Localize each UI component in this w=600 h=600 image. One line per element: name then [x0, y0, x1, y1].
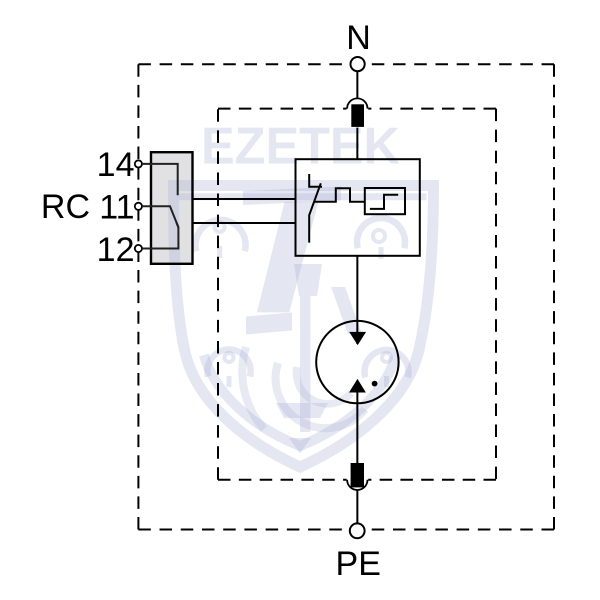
svg-text:RC: RC — [41, 188, 90, 226]
svg-text:N: N — [346, 19, 371, 57]
svg-text:PE: PE — [336, 545, 381, 583]
svg-text:12: 12 — [97, 231, 135, 269]
svg-text:14: 14 — [97, 146, 135, 184]
svg-text:11: 11 — [99, 189, 134, 227]
svg-text:EZETEK: EZETEK — [201, 118, 400, 176]
